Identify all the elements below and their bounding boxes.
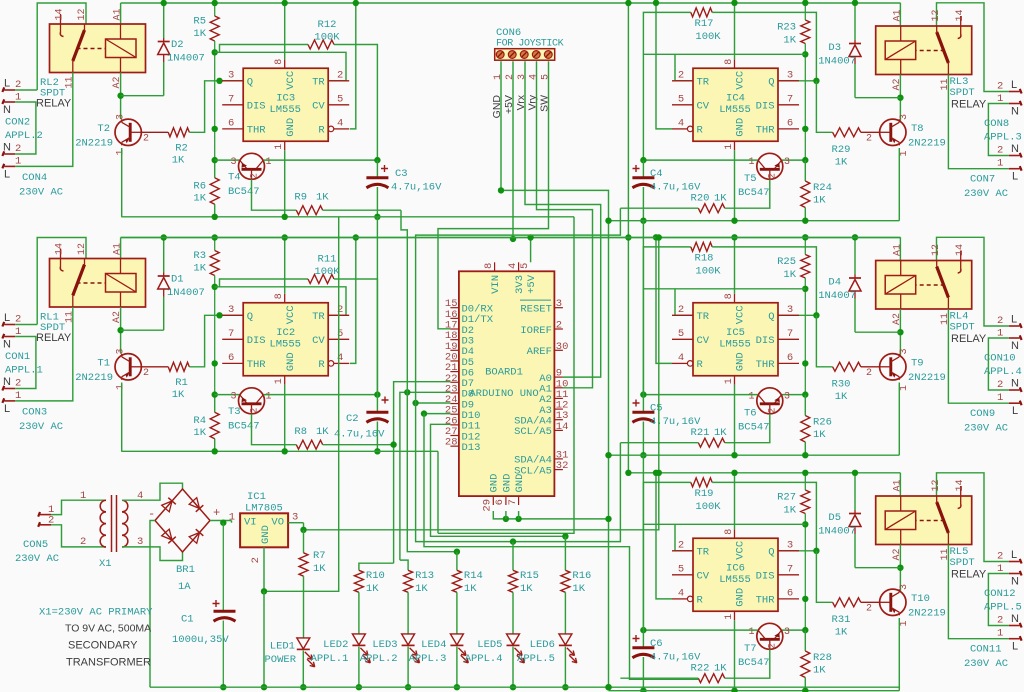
wire LED4 gnd: [456, 647, 458, 688]
svg-text:1N4007: 1N4007: [167, 53, 205, 65]
pin 9 A0: [554, 376, 563, 378]
svg-text:TRANSFORMER: TRANSFORMER: [66, 657, 151, 669]
svg-text:N: N: [1011, 340, 1019, 352]
svg-text:R23: R23: [777, 22, 796, 34]
wire CON N link: [988, 574, 1008, 626]
wire R15 to led: [512, 592, 514, 634]
resistor R14 1K: [452, 570, 461, 592]
resistor R10 1K: [354, 570, 363, 592]
transistor T1 2N2219: [115, 354, 141, 380]
svg-text:POWER: POWER: [264, 654, 296, 666]
wire LED5 gnd: [512, 647, 514, 688]
pin 16 D1/TX: [450, 317, 459, 319]
svg-text:C3: C3: [395, 168, 408, 180]
svg-text:1K: 1K: [813, 429, 826, 441]
svg-text:2: 2: [250, 173, 261, 179]
pin 30 AREF: [554, 349, 563, 351]
wire rail +12V-top: [121, 2, 901, 4]
wire CON6 GND: [501, 61, 609, 519]
bridge rectifier BR1: [155, 489, 210, 552]
svg-text:11: 11: [940, 78, 951, 90]
pin 2 IOREF: [554, 328, 563, 330]
wire T5 collector: [643, 629, 757, 631]
resistor R5 1K: [214, 3, 216, 16]
svg-text:1: 1: [748, 391, 754, 402]
node THR: [802, 360, 808, 366]
svg-text:BR1: BR1: [176, 564, 195, 576]
pin 6 GND: [505, 496, 507, 505]
resistor R20 1K: [725, 179, 770, 208]
svg-text:1: 1: [266, 391, 272, 402]
resistor R18 100K: [643, 247, 690, 395]
svg-text:D1: D1: [171, 274, 184, 286]
svg-text:1: 1: [724, 614, 735, 620]
svg-text:2: 2: [768, 643, 779, 649]
pin 15 D0/RX: [450, 307, 459, 309]
svg-text:11: 11: [940, 548, 951, 560]
pin 29 GND: [492, 496, 494, 505]
resistor R25 1K: [804, 237, 806, 254]
svg-text:R8: R8: [294, 426, 307, 438]
node LED3 gnd: [405, 684, 411, 690]
node gnd GND pin: [731, 452, 737, 458]
svg-text:1: 1: [266, 157, 272, 168]
svg-text:2: 2: [15, 378, 21, 390]
svg-text:THR: THR: [756, 595, 776, 607]
svg-text:R: R: [697, 595, 704, 607]
node gnd R24: [802, 688, 808, 692]
pin 18 D3: [450, 339, 459, 341]
svg-text:100K: 100K: [695, 501, 721, 513]
svg-text:BOARD1: BOARD1: [485, 367, 523, 379]
svg-text:1K: 1K: [316, 192, 329, 204]
wire c5 link to C6: [642, 455, 644, 630]
svg-text:A2: A2: [892, 78, 903, 90]
svg-text:A1: A1: [893, 479, 904, 491]
node Q: [813, 312, 819, 318]
node gnd R24: [802, 452, 808, 458]
svg-text:4: 4: [678, 587, 684, 599]
wire CON5 to primary: [51, 500, 106, 514]
svg-text:LM555: LM555: [269, 104, 301, 116]
svg-text:CON6: CON6: [496, 27, 521, 39]
svg-text:ARDUINO UNO: ARDUINO UNO: [469, 388, 538, 400]
svg-text:29: 29: [482, 499, 494, 512]
wire relay A2 node: [120, 307, 122, 354]
svg-text:2: 2: [143, 368, 149, 379]
svg-text:R16: R16: [572, 570, 591, 582]
svg-text:IC4: IC4: [726, 92, 745, 104]
svg-text:2: 2: [997, 615, 1003, 627]
svg-text:APPL.1: APPL.1: [311, 653, 349, 665]
wire CON6 Vry to A1: [537, 61, 593, 388]
board U-BOARD1 Arduino UNO: [459, 271, 555, 496]
svg-text:3: 3: [230, 391, 236, 402]
wire A1-RL1: [120, 238, 122, 259]
wire diode link: [855, 567, 900, 569]
pin 26 D11: [450, 424, 459, 426]
node LED6 feed: [562, 533, 568, 539]
svg-text:12: 12: [77, 243, 88, 255]
svg-text:C5: C5: [650, 403, 663, 415]
pin 12 A3: [554, 408, 563, 410]
node T4 collector C node: [374, 157, 380, 163]
wire LED6 gnd: [564, 647, 566, 688]
svg-text:1K: 1K: [193, 193, 206, 205]
svg-text:L: L: [1011, 549, 1017, 561]
svg-text:3: 3: [517, 74, 528, 80]
svg-text:APPL.2: APPL.2: [5, 130, 43, 142]
node LED1 gnd: [300, 684, 306, 690]
wire TR net: [643, 53, 805, 55]
node D9 lane: [412, 400, 418, 406]
svg-text:1K: 1K: [714, 663, 727, 675]
svg-text:R17: R17: [695, 18, 714, 30]
svg-text:CV: CV: [697, 101, 710, 113]
svg-text:VCC: VCC: [735, 541, 747, 560]
svg-text:IC1: IC1: [247, 491, 266, 503]
svg-text:DIS: DIS: [756, 335, 775, 347]
svg-text:30: 30: [556, 341, 569, 353]
svg-text:4.7u,16V: 4.7u,16V: [650, 182, 701, 194]
svg-text:LM7805: LM7805: [245, 503, 283, 515]
svg-text:L: L: [4, 403, 10, 415]
svg-text:5: 5: [678, 328, 684, 340]
wire relay A2 node: [899, 545, 901, 592]
svg-text:5: 5: [337, 93, 343, 105]
wire A1 riser: [899, 3, 901, 26]
svg-text:IC6: IC6: [726, 562, 745, 574]
svg-text:FOR JOYSTICK: FOR JOYSTICK: [496, 39, 564, 50]
svg-text:IC5: IC5: [726, 327, 745, 339]
relay RL1: [50, 259, 146, 308]
wire R pin riser: [656, 473, 672, 599]
svg-text:1K: 1K: [783, 269, 796, 281]
svg-text:SPDT: SPDT: [950, 322, 975, 334]
wire relay pin11 to CON: [15, 73, 73, 167]
node mr rpin riser: [656, 234, 662, 240]
wire mid +12V rail: [121, 237, 901, 239]
node VCC rail: [731, 470, 737, 476]
transistor T9 2N2219: [880, 354, 906, 380]
svg-text:L: L: [1011, 79, 1017, 91]
resistor R26 1K: [804, 395, 806, 416]
svg-text:R28: R28: [813, 652, 832, 664]
transistor T8 2N2219: [880, 119, 906, 145]
node Q: [216, 78, 222, 84]
wire gnd bus under arduino: [493, 511, 608, 519]
resistor R8 1K: [252, 414, 297, 445]
wire TR net: [643, 523, 805, 525]
capacitor C4 4.7u: [642, 160, 644, 178]
svg-text:LED4: LED4: [421, 639, 446, 651]
svg-text:R: R: [318, 359, 325, 371]
svg-text:3: 3: [292, 512, 298, 524]
node R rail: [653, 234, 659, 240]
svg-text:1: 1: [748, 157, 754, 168]
wire CON12-L: [937, 473, 1009, 562]
wire D9 down feeder H541: [416, 403, 621, 542]
svg-text:8: 8: [724, 59, 735, 65]
svg-text:VI: VI: [244, 517, 257, 529]
wire T8 emitter: [898, 148, 900, 221]
transistor T2 2N2219: [115, 119, 141, 145]
resistor R24 1K: [804, 160, 806, 181]
resistor R1 1K: [168, 362, 189, 371]
svg-text:3: 3: [787, 539, 793, 551]
svg-text:R10: R10: [366, 570, 385, 582]
svg-text:C6: C6: [650, 638, 663, 650]
svg-text:4.7u,16V: 4.7u,16V: [391, 182, 442, 194]
svg-text:3V3: 3V3: [514, 275, 526, 294]
wire relay pin11 to CON: [948, 75, 1008, 169]
svg-text:2: 2: [80, 536, 86, 548]
resistor R30 1K: [833, 362, 861, 371]
node gnd GND pin: [282, 214, 288, 220]
svg-text:CON7: CON7: [970, 174, 995, 186]
svg-text:L: L: [1011, 314, 1017, 326]
pin 10 A1: [554, 387, 563, 389]
svg-text:14: 14: [955, 9, 966, 21]
svg-text:TO 9V AC, 500MA: TO 9V AC, 500MA: [65, 623, 151, 635]
svg-text:T5: T5: [744, 173, 757, 185]
svg-text:VCC: VCC: [285, 305, 297, 324]
wire CON N link: [15, 337, 36, 389]
transistor T7 BC547: [782, 629, 805, 631]
node +5V rail: [510, 236, 516, 242]
node T4 emitter: [212, 157, 218, 163]
svg-text:LM555: LM555: [719, 574, 751, 586]
node T4 collector C node: [374, 391, 380, 397]
svg-text:VIN: VIN: [490, 275, 502, 294]
resistor R11 100K: [220, 279, 309, 287]
wire VCC riser: [284, 238, 286, 294]
svg-text:GND: GND: [285, 118, 297, 137]
svg-text:T3: T3: [228, 406, 241, 418]
node rail R25: [802, 234, 808, 240]
node cap gnd: [640, 452, 646, 458]
svg-text:7: 7: [507, 499, 519, 505]
svg-text:6: 6: [228, 117, 234, 129]
svg-text:230V AC: 230V AC: [19, 187, 63, 199]
node D8 lane: [404, 389, 410, 395]
svg-text:1: 1: [724, 144, 735, 150]
node LED5 gnd: [510, 684, 516, 690]
svg-text:4.7u,16V: 4.7u,16V: [334, 429, 385, 441]
node rail feed mid: [625, 234, 631, 240]
wire CON8-L: [937, 3, 1009, 92]
svg-text:1: 1: [899, 620, 910, 626]
pin 8 VIN: [494, 262, 496, 271]
svg-text:A2: A2: [892, 548, 903, 560]
svg-text:L: L: [1012, 641, 1018, 653]
svg-text:R6: R6: [193, 181, 206, 193]
svg-text:THR: THR: [247, 125, 267, 137]
svg-text:R11: R11: [318, 254, 337, 266]
svg-text:DIS: DIS: [756, 101, 775, 113]
svg-text:4: 4: [337, 117, 343, 129]
svg-text:CV: CV: [312, 335, 325, 347]
svg-text:1K: 1K: [714, 193, 727, 205]
svg-text:2: 2: [997, 81, 1003, 93]
svg-text:8: 8: [724, 529, 735, 535]
svg-text:A1: A1: [893, 244, 904, 256]
svg-text:R: R: [697, 125, 704, 137]
led LED5 APPL.4: [507, 634, 520, 645]
node 5V riser BR rail: [656, 470, 662, 476]
svg-text:D2: D2: [171, 39, 184, 51]
svg-text:2: 2: [15, 314, 21, 326]
wire diode link: [121, 329, 164, 331]
node R23 bottom: [802, 521, 808, 527]
wire GND drop: [284, 385, 286, 452]
svg-text:IC3: IC3: [276, 92, 295, 104]
svg-text:R9: R9: [294, 192, 307, 204]
svg-text:1: 1: [229, 512, 235, 524]
wire rail feed vertical: [627, 3, 629, 473]
node LED2 gnd: [356, 684, 362, 690]
node rail feed bottom: [625, 470, 631, 476]
svg-text:T1: T1: [97, 358, 110, 370]
svg-text:CON11: CON11: [970, 644, 1002, 656]
resistor R4 1K: [210, 412, 219, 438]
svg-text:T4: T4: [228, 172, 241, 184]
svg-text:LM555: LM555: [269, 338, 301, 350]
relay RL4: [876, 261, 972, 310]
svg-text:14: 14: [955, 479, 966, 491]
svg-text:1K: 1K: [193, 28, 206, 40]
svg-text:1N4007: 1N4007: [818, 526, 856, 538]
node T5 emitter: [802, 391, 808, 397]
svg-text:Q: Q: [247, 77, 253, 89]
node R23 bottom: [802, 51, 808, 57]
svg-text:1N4007: 1N4007: [818, 56, 856, 68]
svg-text:1: 1: [493, 74, 504, 80]
relay RL2: [50, 24, 146, 73]
svg-text:8: 8: [274, 293, 285, 299]
wire relay pin11 to CON: [948, 545, 1008, 639]
resistor R12 100K: [220, 45, 309, 53]
node THR: [212, 360, 218, 366]
svg-text:GND: GND: [260, 525, 272, 544]
wire Q to base: [816, 551, 832, 603]
svg-text:TR: TR: [697, 311, 710, 323]
svg-text:R3: R3: [193, 250, 206, 262]
svg-text:IC2: IC2: [276, 327, 295, 339]
svg-text:2N2219: 2N2219: [75, 138, 113, 150]
svg-text:2: 2: [678, 539, 684, 551]
pin 13 SDA/A4: [554, 419, 563, 421]
svg-text:7: 7: [787, 328, 793, 340]
svg-text:3: 3: [556, 298, 562, 310]
svg-text:6: 6: [787, 117, 793, 129]
svg-text:SPDT: SPDT: [950, 557, 975, 569]
svg-text:4: 4: [528, 74, 539, 80]
svg-text:12: 12: [77, 8, 88, 20]
wire TR net: [643, 288, 805, 290]
svg-text:C1: C1: [181, 614, 194, 626]
wire LED6 drop: [564, 536, 566, 570]
svg-text:2: 2: [997, 551, 1003, 563]
wire IC1 gnd down: [263, 591, 265, 687]
svg-text:APPL.3: APPL.3: [409, 653, 447, 665]
svg-text:R20: R20: [691, 193, 710, 205]
svg-text:11: 11: [940, 313, 951, 325]
svg-text:12: 12: [931, 9, 942, 21]
svg-text:R31: R31: [832, 614, 851, 626]
wire gnd rail: [121, 216, 574, 218]
svg-text:R12: R12: [318, 19, 337, 31]
wire T2 emitter: [121, 148, 123, 217]
svg-text:CV: CV: [697, 335, 710, 347]
svg-text:R24: R24: [813, 182, 832, 194]
svg-text:X1: X1: [99, 558, 112, 570]
node gnd bus con6: [605, 516, 611, 522]
svg-text:Q: Q: [247, 311, 253, 323]
svg-text:1K: 1K: [415, 583, 428, 595]
svg-text:A1: A1: [113, 243, 124, 255]
svg-text:T7: T7: [744, 643, 757, 655]
connector CON2 terminals: [4, 89, 15, 91]
wire R14 to led: [456, 592, 458, 634]
svg-text:1000u,35V: 1000u,35V: [172, 634, 229, 646]
svg-text:2: 2: [337, 69, 343, 81]
svg-text:LED1: LED1: [270, 641, 295, 653]
node gnd GND pin: [282, 448, 288, 454]
svg-text:5: 5: [678, 93, 684, 105]
wire D8 up to R9: [401, 210, 407, 392]
svg-text:R13: R13: [415, 570, 434, 582]
svg-text:3: 3: [116, 114, 127, 120]
svg-text:RELAY: RELAY: [36, 332, 72, 344]
svg-text:11: 11: [65, 311, 76, 323]
resistor R29 1K: [833, 128, 861, 137]
svg-text:GND: GND: [514, 474, 526, 493]
svg-text:A1: A1: [893, 9, 904, 21]
resistor R17 100K: [643, 12, 690, 160]
svg-text:SPDT: SPDT: [950, 87, 975, 99]
wire ML gnd link: [437, 451, 439, 533]
svg-text:4: 4: [678, 117, 684, 129]
svg-text:4: 4: [507, 263, 519, 269]
svg-text:C4: C4: [650, 168, 663, 180]
node rail R23: [802, 0, 808, 6]
node arduino 5V dot: [527, 234, 533, 240]
svg-text:2: 2: [556, 320, 562, 332]
svg-text:SCL/A5: SCL/A5: [514, 426, 552, 438]
wire D10 down feeder H546 to R22: [424, 414, 698, 680]
svg-text:Q: Q: [768, 311, 774, 323]
svg-text:GND: GND: [735, 588, 747, 607]
svg-text:8: 8: [483, 263, 495, 269]
svg-text:R15: R15: [520, 570, 539, 582]
node R rail: [653, 470, 659, 476]
svg-text:14: 14: [955, 244, 966, 256]
node cap gnd: [640, 218, 646, 224]
node T5 collector C node: [640, 391, 646, 397]
svg-text:2: 2: [997, 379, 1003, 391]
svg-text:1: 1: [724, 378, 735, 384]
svg-text:1K: 1K: [835, 391, 848, 403]
svg-text:100K: 100K: [695, 266, 721, 278]
wire CON10-L: [937, 237, 1009, 326]
led LED3 APPL.2: [402, 634, 415, 645]
diode D2: [163, 3, 165, 38]
svg-text:1: 1: [748, 627, 754, 638]
diode D1: [163, 238, 165, 273]
wire VCC riser: [734, 3, 736, 59]
svg-text:1K: 1K: [783, 505, 796, 517]
